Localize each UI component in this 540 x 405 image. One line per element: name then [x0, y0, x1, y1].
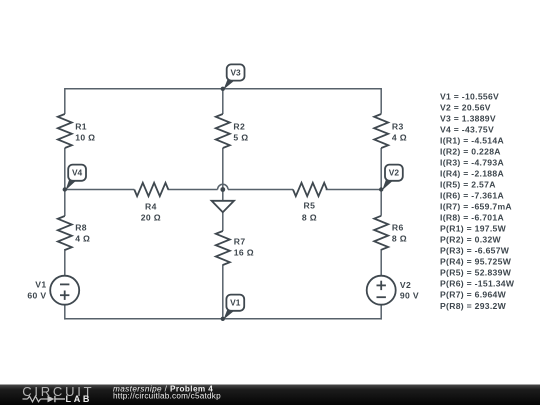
current direction arrow at center node [212, 201, 234, 212]
wire hop over center node [218, 184, 228, 189]
wire right column (R3 to R6) [380, 148, 382, 216]
svg-text:P(R8) = 293.2W: P(R8) = 293.2W [440, 301, 507, 311]
wire left column top (top wire to R1) [64, 88, 66, 114]
svg-text:I(R5) = 2.57A: I(R5) = 2.57A [440, 180, 496, 190]
svg-text:I(R7) = -659.7mA: I(R7) = -659.7mA [440, 202, 512, 212]
svg-text:V3 = 1.3889V: V3 = 1.3889V [440, 113, 496, 123]
wire middle horizontal (R4 to hop) [168, 189, 218, 191]
resistor R5 [293, 183, 327, 223]
svg-text:5 Ω: 5 Ω [233, 132, 248, 142]
svg-text:R6: R6 [392, 222, 404, 232]
junction dot at center node [220, 187, 225, 192]
wire right column (top wire to R3) [380, 88, 382, 114]
node V4 [63, 165, 86, 192]
CircuitLab logo wordmark [22, 384, 94, 404]
resistor R3 [374, 114, 407, 148]
svg-text:I(R6) = -7.361A: I(R6) = -7.361A [440, 191, 504, 201]
simulation results text [440, 91, 515, 310]
wire center node to arrow top [222, 190, 224, 204]
svg-text:20 Ω: 20 Ω [141, 212, 161, 222]
svg-text:I(R8) = -6.701A: I(R8) = -6.701A [440, 213, 504, 223]
svg-text:4 Ω: 4 Ω [75, 234, 90, 244]
wire right column (R6 to V2 source) [380, 249, 382, 276]
svg-text:16 Ω: 16 Ω [234, 248, 254, 258]
wire middle horizontal left (V4 to R4) [65, 189, 135, 191]
svg-text:V3: V3 [230, 67, 241, 77]
svg-text:V2: V2 [400, 280, 411, 290]
node V2 [379, 165, 403, 192]
wire center column (R2 to center node) [222, 148, 224, 188]
svg-text:R2: R2 [233, 121, 245, 131]
svg-text:P(R1) = 197.5W: P(R1) = 197.5W [440, 224, 507, 234]
svg-text:R1: R1 [75, 121, 87, 131]
svg-text:V4 = -43.75V: V4 = -43.75V [440, 124, 494, 134]
wire bottom horizontal [65, 318, 381, 320]
svg-text:P(R3) = -6.657W: P(R3) = -6.657W [440, 246, 510, 256]
resistor R6 [374, 216, 407, 250]
svg-text:P(R4) = 95.725W: P(R4) = 95.725W [440, 257, 512, 267]
wire left column (R8 to V1 source) [64, 249, 66, 276]
wire middle horizontal right (R5 to V2 node) [326, 189, 382, 191]
svg-text:V2: V2 [389, 168, 400, 178]
svg-text:LAB: LAB [66, 394, 93, 404]
svg-text:R8: R8 [75, 222, 87, 232]
wire middle horizontal (hop to R5) [228, 189, 293, 191]
svg-text:V1: V1 [35, 279, 46, 289]
svg-text:http://circuitlab.com/c5atdkp: http://circuitlab.com/c5atdkp [113, 392, 221, 401]
svg-text:I(R1) = -4.514A: I(R1) = -4.514A [440, 135, 504, 145]
svg-text:R4: R4 [145, 201, 157, 211]
resistor R2 [216, 114, 249, 148]
svg-text:60 V: 60 V [27, 290, 46, 300]
svg-text:4 Ω: 4 Ω [392, 132, 407, 142]
svg-text:R5: R5 [304, 201, 316, 211]
wire left column (R1 to R8) [64, 148, 66, 216]
footer bar [0, 385, 540, 405]
wire top horizontal [65, 88, 381, 90]
resistor R7 [216, 231, 254, 265]
svg-text:V1: V1 [230, 298, 241, 308]
voltage source V1 [27, 276, 79, 305]
wire center column (top wire to R2) [222, 88, 224, 114]
node V3 [221, 64, 245, 91]
svg-text:I(R3) = -4.793A: I(R3) = -4.793A [440, 157, 504, 167]
resistor R8 [58, 216, 91, 250]
svg-text:V1 = -10.556V: V1 = -10.556V [440, 91, 499, 101]
wire center column (R7 to bottom wire) [222, 264, 224, 319]
svg-text:90 V: 90 V [400, 290, 419, 300]
resistor R1 [58, 114, 96, 148]
svg-text:I(R2) = 0.228A: I(R2) = 0.228A [440, 146, 501, 156]
svg-text:R3: R3 [392, 121, 404, 131]
svg-text:R7: R7 [234, 236, 246, 246]
svg-text:8 Ω: 8 Ω [392, 234, 407, 244]
voltage source V2 [367, 276, 419, 305]
wire arrow apex to R7 [222, 212, 224, 231]
svg-text:V4: V4 [72, 168, 83, 178]
svg-text:P(R5) = 52.839W: P(R5) = 52.839W [440, 268, 512, 278]
wire right column (V2 source to bottom wire) [380, 305, 382, 320]
svg-text:8 Ω: 8 Ω [302, 213, 317, 223]
node V1 [221, 295, 245, 321]
svg-text:I(R4) = -2.188A: I(R4) = -2.188A [440, 169, 504, 179]
wire left column (V1 source to bottom wire) [64, 305, 66, 320]
svg-text:10 Ω: 10 Ω [75, 132, 95, 142]
svg-text:P(R6) = -151.34W: P(R6) = -151.34W [440, 279, 515, 289]
svg-text:P(R7) = 6.964W: P(R7) = 6.964W [440, 290, 507, 300]
svg-text:P(R2) = 0.32W: P(R2) = 0.32W [440, 235, 502, 245]
footer credit text [113, 385, 221, 401]
svg-text:V2 = 20.56V: V2 = 20.56V [440, 102, 491, 112]
resistor R4 [134, 183, 168, 223]
